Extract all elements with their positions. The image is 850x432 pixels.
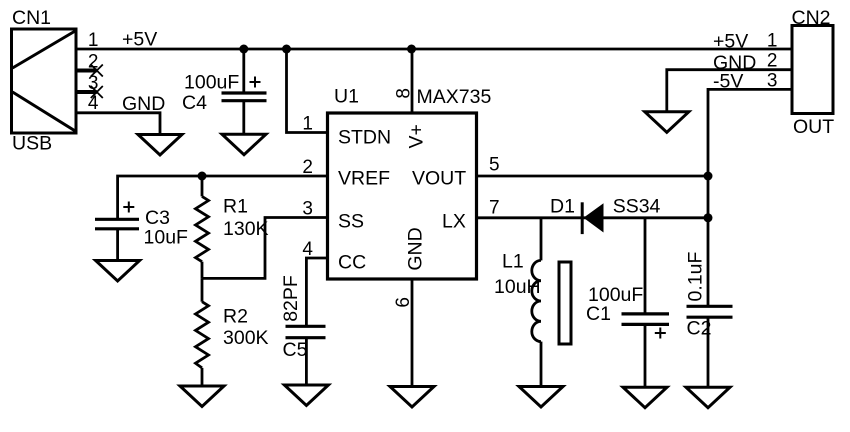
svg-text:82PF: 82PF [280,275,302,322]
svg-text:4: 4 [302,239,313,260]
svg-text:3: 3 [767,70,778,91]
svg-text:100uF: 100uF [184,72,239,94]
svg-text:V+: V+ [406,124,428,148]
svg-text:R2: R2 [223,306,248,328]
svg-text:SS34: SS34 [613,196,661,218]
svg-text:8: 8 [393,88,414,99]
svg-text:7: 7 [489,198,500,219]
svg-text:0.1uF: 0.1uF [684,251,706,301]
svg-text:MAX735: MAX735 [417,86,492,108]
svg-text:10uF: 10uF [144,227,189,249]
svg-text:CN1: CN1 [12,7,51,29]
svg-text:10uH: 10uH [494,276,541,298]
svg-text:C1: C1 [586,303,611,325]
svg-text:3: 3 [88,73,99,94]
svg-text:VREF: VREF [338,168,390,190]
svg-text:CC: CC [338,252,366,274]
svg-text:5: 5 [489,155,500,176]
svg-text:U1: U1 [334,86,359,108]
svg-text:R1: R1 [223,196,248,218]
svg-text:6: 6 [393,297,414,308]
svg-text:OUT: OUT [793,116,834,138]
svg-text:LX: LX [442,211,466,233]
svg-text:USB: USB [12,133,52,155]
svg-text:VOUT: VOUT [412,168,466,190]
svg-text:300K: 300K [223,327,269,349]
svg-text:GND: GND [122,93,165,115]
svg-text:1: 1 [88,30,99,51]
svg-text:2: 2 [767,51,778,72]
svg-text:-5V: -5V [713,71,743,93]
svg-text:2: 2 [88,52,99,73]
svg-text:4: 4 [88,93,99,114]
svg-text:2: 2 [302,157,313,178]
svg-text:STDN: STDN [338,127,391,149]
svg-text:D1: D1 [550,196,575,218]
svg-text:3: 3 [302,199,313,220]
svg-text:130K: 130K [223,218,269,240]
svg-text:1: 1 [302,114,313,135]
svg-text:L1: L1 [502,251,524,273]
svg-text:SS: SS [338,211,364,233]
svg-text:+5V: +5V [122,29,157,51]
svg-text:CN2: CN2 [792,7,831,29]
svg-text:C2: C2 [687,318,712,340]
svg-text:C4: C4 [182,92,207,114]
svg-text:GND: GND [404,227,426,270]
svg-text:1: 1 [767,30,778,51]
svg-text:C5: C5 [283,339,308,361]
svg-text:+5V: +5V [713,31,748,53]
